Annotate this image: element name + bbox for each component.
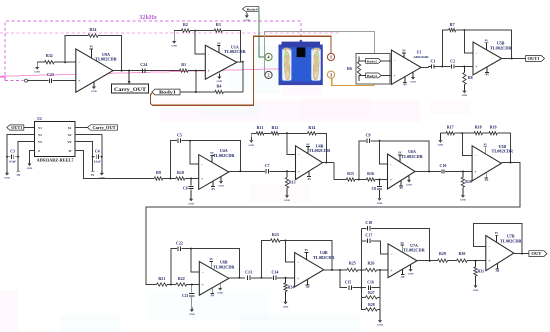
junction: [238, 277, 240, 279]
junction: [189, 140, 191, 142]
svg-text:-9V: -9V: [495, 270, 499, 273]
junction: [242, 61, 244, 63]
capacitor C3: [6, 150, 19, 164]
wire: [163, 178, 176, 180]
wire: [440, 132, 446, 134]
wire to inverting input: [464, 30, 473, 53]
svg-text:VP: VP: [67, 140, 71, 144]
wire VP: [75, 142, 93, 172]
svg-text:C18: C18: [365, 220, 372, 225]
resistor R13: [285, 171, 295, 193]
junction: [286, 132, 288, 134]
junction: [191, 284, 193, 286]
wire W output to filter chain: [75, 151, 154, 179]
resistor R11: [256, 125, 264, 135]
svg-text:-9V: -9V: [305, 286, 309, 289]
junction: [379, 179, 381, 181]
svg-text:-9V: -9V: [403, 84, 407, 87]
wire output down to R4: [242, 62, 244, 92]
resistor R10: [176, 170, 185, 180]
brown wire Body1 to node 1: [150, 36, 331, 105]
node 1: [327, 53, 334, 60]
op-amp U7B: [486, 232, 523, 273]
ground: [34, 62, 40, 73]
wire input riser down: [340, 270, 347, 288]
op-amp U6A: [388, 149, 424, 190]
svg-text:9V: 9V: [90, 46, 93, 49]
svg-text:AD620AR: AD620AR: [413, 55, 429, 59]
resistor R30: [457, 251, 468, 262]
svg-text:R2: R2: [183, 22, 188, 27]
wire: [381, 74, 391, 76]
node 4: [265, 53, 272, 60]
junction: [190, 178, 192, 180]
wire feedback: [497, 133, 510, 162]
svg-text:TL082CDR: TL082CDR: [213, 153, 235, 158]
resistor R26: [366, 261, 377, 272]
wire to inverting input: [380, 141, 388, 164]
svg-text:C7: C7: [265, 163, 270, 168]
net 32kHz dashed path: [5, 21, 301, 81]
svg-text:GND: GND: [283, 305, 289, 308]
svg-text:R11: R11: [257, 125, 264, 130]
svg-text:Body2: Body2: [367, 60, 377, 64]
svg-text:R21: R21: [158, 276, 165, 281]
junction: [511, 58, 513, 60]
svg-text:R16: R16: [367, 171, 374, 176]
capacitor C14: [271, 270, 294, 281]
svg-text:TL082CDR: TL082CDR: [313, 255, 335, 260]
svg-text:0.1uF: 0.1uF: [9, 161, 16, 164]
flag Body1: [152, 89, 180, 95]
wire feedback: [316, 133, 326, 162]
svg-text:GND: GND: [377, 202, 383, 205]
ground: [29, 161, 31, 164]
svg-text:R19: R19: [490, 125, 497, 130]
svg-text:TL082CDR: TL082CDR: [403, 248, 425, 253]
wire down to next stage: [334, 163, 347, 180]
resistor R20: [461, 172, 472, 193]
wire: [37, 61, 44, 63]
svg-text:R25: R25: [349, 261, 356, 266]
wire output: [323, 162, 334, 164]
wire feedback over top: [474, 223, 522, 253]
resistor R25: [347, 261, 358, 272]
svg-text:-9V: -9V: [210, 295, 214, 298]
resistor R22: [176, 276, 187, 286]
svg-text:TL082CDR: TL082CDR: [500, 238, 522, 243]
wire to R4 row: [195, 71, 197, 92]
wire to inverting input: [462, 133, 472, 155]
svg-text:GND: GND: [406, 184, 412, 187]
svg-text:GND: GND: [473, 289, 479, 292]
svg-text:9V: 9V: [217, 42, 220, 45]
resistor R1: [180, 62, 189, 72]
svg-text:GND: GND: [244, 19, 250, 22]
capacitor C13: [245, 270, 272, 281]
wire Y2 to gnd: [7, 135, 35, 171]
svg-text:R8: R8: [468, 75, 473, 80]
junction: [325, 162, 327, 164]
capacitor C7: [265, 163, 296, 174]
svg-text:C13: C13: [245, 270, 252, 275]
wire: [377, 269, 388, 271]
wire to inverting input: [191, 249, 199, 272]
ground at Body4: [242, 9, 249, 22]
junction: [169, 178, 171, 180]
junction: [285, 277, 287, 279]
wire X2: [75, 135, 102, 171]
wire: [375, 179, 388, 181]
flag Carry_OUT: [88, 125, 118, 130]
wire to inverting input: [287, 133, 296, 154]
ground: [438, 133, 444, 147]
junction: [429, 260, 431, 262]
junction: [170, 284, 172, 286]
resistor R18: [474, 125, 483, 135]
svg-text:C8: C8: [371, 187, 376, 191]
pink analog wire: [0, 69, 279, 77]
svg-text:C2: C2: [450, 58, 455, 63]
junction: [379, 269, 381, 271]
svg-text:GND: GND: [249, 144, 255, 147]
svg-text:C3: C3: [10, 150, 15, 154]
wire feedback to output: [222, 31, 240, 62]
flag OUT: [529, 251, 547, 257]
svg-text:GND: GND: [462, 94, 468, 97]
ground: [379, 196, 381, 199]
op-amp U4B: [296, 143, 332, 180]
svg-text:C9: C9: [366, 133, 371, 138]
junction: [360, 269, 362, 271]
wire: [381, 60, 391, 62]
flag Body4: [242, 7, 259, 12]
svg-text:R28: R28: [368, 303, 375, 307]
wire: [467, 260, 486, 262]
capacitor C24: [140, 62, 147, 73]
svg-text:+: +: [394, 74, 396, 78]
capacitor C10: [440, 163, 473, 174]
wire: [359, 74, 366, 76]
svg-text:VS: VS: [38, 140, 42, 144]
junction: [64, 61, 66, 63]
resistor R16: [366, 171, 375, 181]
ground: [462, 193, 464, 196]
junction: [285, 240, 287, 242]
resistor R4: [215, 84, 224, 94]
capacitor C21: [182, 285, 194, 307]
svg-text:GND: GND: [217, 291, 223, 294]
junction: [194, 30, 196, 32]
resistor R3: [214, 22, 222, 32]
svg-text:AD633ARZ-REEL7: AD633ARZ-REEL7: [37, 157, 74, 162]
svg-text:OUT: OUT: [531, 251, 541, 256]
svg-text:9V: 9V: [495, 232, 498, 235]
svg-text:C6: C6: [183, 187, 188, 191]
power -9V: [16, 171, 20, 177]
ground: [101, 170, 103, 173]
junction: [428, 171, 430, 173]
svg-text:GND: GND: [284, 199, 290, 202]
wire X1 to Carry_OUT: [75, 127, 88, 129]
op-amp U4A: [199, 148, 236, 191]
junction: [339, 269, 341, 271]
wire output: [417, 260, 438, 262]
svg-text:R29: R29: [439, 251, 446, 256]
ground: [285, 299, 287, 302]
capacitor C18 feedback: [361, 220, 429, 261]
node 3: [327, 71, 334, 78]
svg-text:C14: C14: [271, 270, 278, 275]
junction: [286, 170, 288, 172]
junction: [521, 253, 523, 255]
svg-text:TL082CDR: TL082CDR: [95, 57, 117, 62]
ground: [249, 133, 255, 147]
wire: [358, 269, 366, 271]
wire output: [324, 269, 347, 271]
capacitor C1: [430, 58, 443, 68]
svg-text:GND: GND: [91, 90, 97, 93]
svg-text:R22: R22: [178, 276, 185, 281]
svg-text:C23: C23: [47, 72, 54, 77]
svg-text:R10: R10: [177, 170, 184, 175]
wire: [180, 91, 215, 93]
junction: [260, 277, 262, 279]
svg-text:R13: R13: [289, 181, 296, 185]
ground: [377, 309, 383, 326]
svg-text:R23: R23: [272, 232, 279, 237]
gray wire node 2 to electrode box: [265, 32, 375, 76]
svg-text:R32: R32: [46, 53, 53, 58]
junction: [441, 66, 443, 68]
svg-text:R1: R1: [181, 62, 186, 67]
op-amp U5B: [473, 39, 512, 76]
body scale sensor: [279, 40, 323, 85]
capacitor C23: [47, 72, 76, 83]
svg-text:-9V: -9V: [485, 74, 489, 77]
faint dashed feedback line: [0, 32, 340, 34]
svg-text:C1: C1: [430, 58, 435, 63]
svg-text:X2: X2: [68, 133, 72, 137]
wire: [54, 61, 76, 63]
svg-text:U2: U2: [37, 117, 42, 121]
orange wire node 3 to electrode box: [332, 78, 374, 86]
wire U9A output: [113, 70, 180, 72]
flag Body2: [366, 59, 382, 64]
multiplier U2 AD633ARZ-REEL7: [31, 117, 78, 163]
wire output: [421, 66, 429, 68]
resistor R15: [346, 171, 355, 181]
capacitor C8: [371, 180, 382, 196]
svg-text:GND: GND: [27, 167, 33, 170]
op-amp U5B mid: [472, 143, 514, 182]
ground: [191, 307, 193, 310]
svg-text:R30: R30: [458, 251, 465, 256]
svg-text:Y1: Y1: [38, 126, 42, 130]
wire: [190, 30, 214, 32]
svg-text:GND: GND: [408, 273, 414, 276]
wire: [279, 132, 308, 134]
wire to inverting input: [195, 31, 205, 54]
svg-text:Z: Z: [38, 149, 40, 153]
svg-text:R14: R14: [308, 125, 315, 130]
svg-text:TL082CDR: TL082CDR: [213, 264, 235, 269]
instrumentation amp U1 AD620AR: [391, 50, 429, 87]
resistor R12: [271, 125, 279, 135]
flag OUT1 output: [526, 56, 545, 62]
svg-text:GND: GND: [171, 45, 177, 48]
wire: [188, 70, 205, 72]
svg-text:C4: C4: [95, 150, 100, 154]
capacitor C15: [345, 280, 366, 289]
wire output: [514, 253, 529, 255]
capacitor C22 feedback: [171, 240, 239, 284]
junction: [360, 287, 362, 289]
wire: [359, 60, 366, 62]
svg-text:R34: R34: [90, 27, 97, 32]
svg-text:-9V: -9V: [400, 276, 404, 279]
svg-text:9V: 9V: [485, 39, 488, 42]
op-amp U9A: [76, 46, 118, 93]
wire: [24, 127, 35, 129]
svg-text:GND: GND: [460, 199, 466, 202]
wire: [187, 284, 200, 286]
svg-text:Y2: Y2: [38, 133, 42, 137]
Carry_OUT output box: [112, 71, 149, 93]
svg-text:TL082CDR: TL082CDR: [224, 49, 246, 54]
svg-text:Carry_OUT: Carry_OUT: [114, 87, 146, 93]
junction: [475, 260, 477, 262]
flag OUT1 input: [7, 125, 24, 130]
svg-text:9V: 9V: [306, 143, 309, 146]
junction node +in U1A: [195, 70, 197, 72]
svg-text:C22: C22: [176, 240, 183, 245]
capacitor C17: [361, 228, 388, 270]
svg-text:R15: R15: [347, 171, 354, 176]
wire output to bottom row: [146, 163, 520, 285]
svg-text:9V: 9V: [210, 258, 213, 261]
wire: [223, 91, 242, 93]
wire output: [415, 171, 441, 173]
svg-text:-9V: -9V: [307, 178, 311, 181]
resistor R34 feedback: [65, 27, 122, 71]
electrode box: [356, 54, 390, 84]
svg-text:-9V: -9V: [399, 187, 403, 190]
capacitor C6: [183, 179, 194, 197]
junction: [510, 162, 512, 164]
wire: [355, 179, 366, 181]
magenta entry wire: [0, 77, 5, 80]
svg-text:-9V: -9V: [211, 188, 215, 191]
op-amp U1A: [205, 42, 246, 83]
wire: [154, 284, 156, 286]
junction: [462, 171, 464, 173]
svg-text:9V: 9V: [402, 50, 405, 53]
junction: [190, 248, 192, 250]
op-amp U4B bottom: [295, 249, 336, 289]
svg-text:TL082CDR: TL082CDR: [401, 154, 423, 159]
junction: [461, 132, 463, 134]
svg-text:-9V: -9V: [484, 179, 488, 182]
wire: [448, 260, 457, 262]
svg-text:GND: GND: [218, 185, 224, 188]
resistor R28: [361, 297, 380, 311]
resistor R17: [446, 125, 454, 135]
svg-text:Carry_OUT: Carry_OUT: [93, 126, 116, 130]
svg-text:GND: GND: [217, 80, 223, 83]
ground: [171, 31, 177, 48]
svg-text:U1: U1: [417, 50, 422, 54]
wire output: [237, 61, 243, 63]
resistor R29: [438, 251, 448, 262]
svg-text:R18: R18: [475, 125, 482, 130]
wire output: [229, 277, 245, 279]
svg-text:GND: GND: [410, 81, 416, 84]
input terminal node: [25, 79, 28, 82]
resistor R9: [154, 170, 163, 180]
svg-text:R26: R26: [368, 261, 375, 266]
svg-text:R7: R7: [450, 22, 455, 27]
resistor R2: [174, 22, 190, 32]
svg-text:C15: C15: [345, 280, 352, 284]
svg-text:GND: GND: [188, 202, 194, 205]
svg-text:GND: GND: [377, 324, 383, 327]
flag Body3: [366, 73, 382, 78]
wire output: [229, 170, 265, 172]
svg-text:R6: R6: [347, 66, 352, 71]
svg-text:R17: R17: [447, 125, 454, 130]
svg-text:OUT1: OUT1: [11, 125, 22, 130]
svg-text:GND: GND: [438, 144, 444, 147]
junction: [358, 179, 360, 181]
resistor R24: [284, 278, 294, 299]
wire: [454, 132, 474, 134]
svg-text:0.1uF: 0.1uF: [94, 161, 101, 164]
wire output: [502, 58, 526, 60]
svg-text:9V: 9V: [484, 143, 487, 146]
svg-text:TL082CDR: TL082CDR: [309, 148, 331, 153]
svg-text:R20: R20: [465, 180, 472, 184]
op-amp U7A: [388, 242, 426, 279]
svg-text:9V: 9V: [401, 242, 404, 245]
svg-text:R9: R9: [156, 170, 161, 175]
node 2: [265, 71, 272, 78]
svg-text:C24: C24: [140, 62, 147, 67]
junction: [463, 29, 465, 31]
capacitor C5 feedback: [170, 133, 240, 179]
wire: [185, 178, 199, 180]
svg-text:R24: R24: [288, 286, 295, 290]
svg-text:-9V: -9V: [16, 174, 20, 177]
svg-text:C10: C10: [440, 163, 447, 168]
svg-text:C17: C17: [365, 233, 372, 238]
svg-text:TL082CDR: TL082CDR: [492, 149, 514, 154]
svg-text:C5: C5: [177, 133, 182, 138]
wire: [264, 132, 271, 134]
capacitor C16: [367, 280, 380, 289]
svg-text:9V: 9V: [305, 249, 308, 252]
svg-text:C21: C21: [182, 294, 189, 298]
resistor R32: [45, 53, 55, 64]
junction: [331, 269, 333, 271]
resistor R19: [489, 125, 497, 135]
svg-text:C16: C16: [367, 280, 374, 284]
svg-text:GND: GND: [4, 177, 10, 180]
wire VS: [18, 142, 34, 172]
svg-text:R27: R27: [368, 291, 375, 295]
resistor R7 feedback: [442, 22, 511, 67]
svg-text:TL082CDR: TL082CDR: [490, 45, 512, 50]
